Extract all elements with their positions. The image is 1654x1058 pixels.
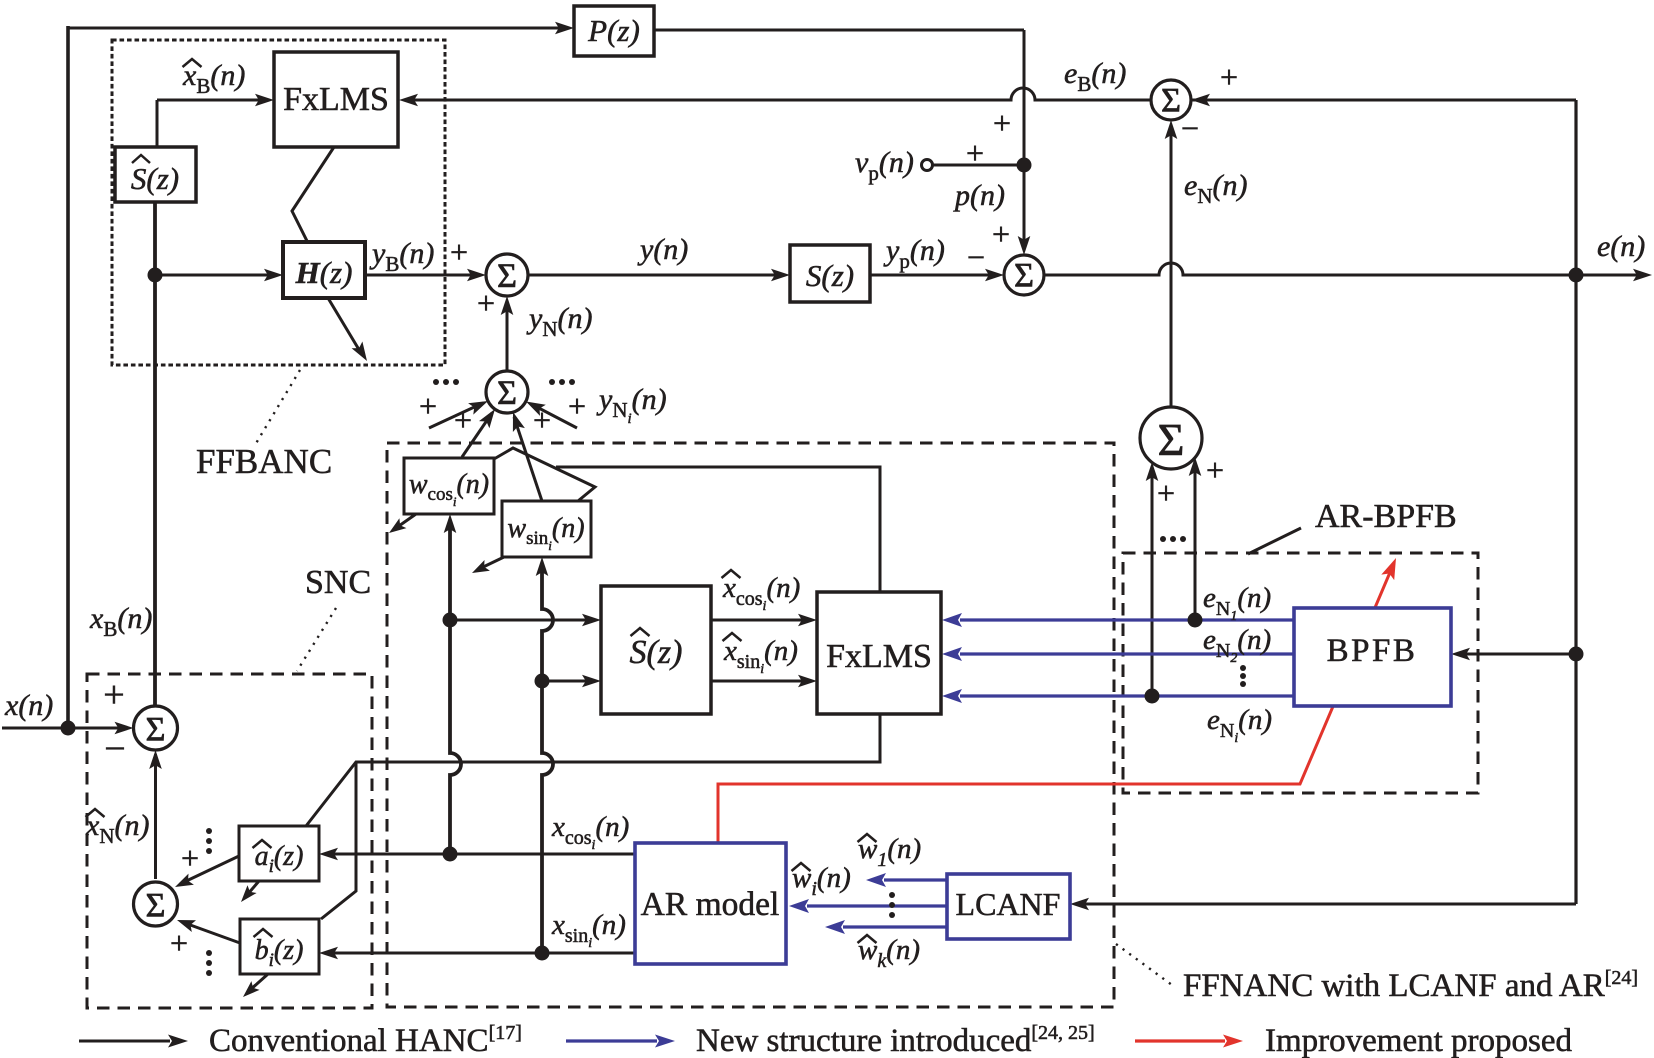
svg-text:−: − (1181, 110, 1199, 146)
svg-text:+: + (454, 402, 472, 438)
svg-text:ai(z): ai(z) (255, 841, 304, 877)
svg-text:Conventional HANC[17]: Conventional HANC[17] (209, 1022, 522, 1058)
svg-text:−: − (104, 728, 125, 770)
svg-text:e(n): e(n) (1597, 230, 1645, 263)
svg-text:Σ: Σ (1161, 82, 1181, 119)
svg-text:+: + (568, 388, 586, 424)
svg-text:+: + (419, 388, 437, 424)
svg-text:+: + (533, 402, 551, 438)
svg-text:Σ: Σ (497, 375, 517, 412)
svg-text:p(n): p(n) (953, 179, 1005, 212)
svg-text:FFBANC: FFBANC (196, 442, 332, 481)
svg-text:+: + (1220, 59, 1238, 95)
svg-text:+: + (992, 216, 1010, 252)
svg-text:+: + (993, 105, 1011, 141)
svg-text:Σ: Σ (1014, 257, 1034, 294)
svg-text:+: + (477, 285, 495, 321)
svg-text:AR model: AR model (641, 886, 780, 923)
svg-text:AR-BPFB: AR-BPFB (1315, 498, 1457, 535)
svg-text:−: − (967, 239, 985, 275)
svg-text:Σ: Σ (146, 887, 166, 924)
svg-text:+: + (1206, 452, 1224, 488)
svg-text:S(z): S(z) (806, 258, 854, 293)
svg-text:H(z): H(z) (295, 255, 353, 290)
svg-text:LCANF: LCANF (956, 886, 1061, 922)
svg-text:FxLMS: FxLMS (283, 81, 389, 118)
svg-text:+: + (103, 674, 124, 716)
svg-text:FFNANC with LCANF and AR[24]: FFNANC with LCANF and AR[24] (1183, 967, 1638, 1004)
svg-text:FxLMS: FxLMS (826, 638, 932, 675)
svg-text:S(z): S(z) (630, 634, 683, 671)
svg-text:Σ: Σ (497, 258, 517, 295)
svg-text:+: + (450, 234, 468, 270)
svg-text:Improvement proposed: Improvement proposed (1265, 1023, 1573, 1058)
svg-text:+: + (966, 135, 984, 171)
svg-text:bi(z): bi(z) (255, 935, 304, 971)
svg-text:+: + (170, 925, 188, 961)
svg-text:x(n): x(n) (4, 689, 53, 722)
svg-text:S(z): S(z) (131, 161, 179, 196)
svg-text:Σ: Σ (146, 711, 166, 748)
svg-text:Σ: Σ (1158, 414, 1185, 465)
svg-text:+: + (181, 840, 199, 876)
svg-text:P(z): P(z) (587, 13, 640, 48)
svg-text:SNC: SNC (305, 564, 371, 601)
svg-text:y(n): y(n) (637, 233, 688, 266)
svg-text:+: + (1157, 475, 1175, 511)
svg-text:BPFB: BPFB (1327, 633, 1418, 669)
